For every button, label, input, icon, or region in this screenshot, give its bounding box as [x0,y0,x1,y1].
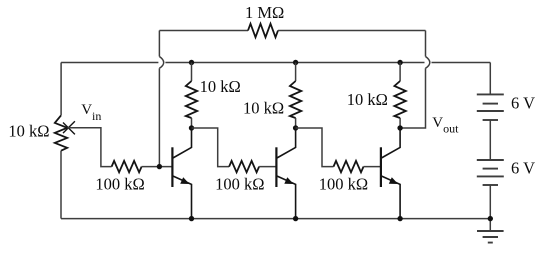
wire: 10 kΩ resistor 2 to collector node [295,118,297,128]
resistor 1 MΩ (feedback) [248,24,278,38]
wire: top feedback wire (right segment) [278,30,426,32]
svg-text:100 kΩ: 100 kΩ [215,175,264,194]
junction: collector node stage 3 [397,125,402,130]
resistor 100 kΩ (base, stage 3) [334,161,364,172]
transistor Q2 base bar [275,147,277,187]
junction: supply rail to collector resistor 1 [189,60,194,65]
transistor Q3 emitter lead [381,176,400,219]
wire: supply rail to 10 kΩ resistor 1 [191,63,193,82]
junction: collector node stage 2 [293,125,298,130]
resistor 10 kΩ (collector load, stage 2) [290,81,301,118]
junction: emitter stage 3 to ground rail [397,216,402,221]
transistor Q2 emitter lead [277,176,296,219]
wire hop: feedback over supply rail (right) [426,57,430,69]
wire: base resistor 3 to Q3 base [364,166,381,168]
svg-text:6 V: 6 V [511,159,535,178]
wire: battery 2 to ground node [489,185,491,231]
potentiometer 10 kΩ (input level control) [55,115,67,150]
svg-text:10 kΩ: 10 kΩ [243,99,284,118]
transistor Q1 emitter arrowhead [180,177,189,184]
wire: wiper lead (pot wiper right then down to base resistor) [67,128,111,167]
resistor 100 kΩ (base, stage 1) [112,161,142,172]
junction: ground rail to battery/ground [488,216,493,221]
transistor Q2 emitter arrowhead [284,177,293,184]
svg-text:10 kΩ: 10 kΩ [200,77,241,96]
wire: left rail bottom (potentiometer to ground rail) [60,151,62,219]
junction: supply rail to collector resistor 3 [397,60,402,65]
wire: collector stage 2 to base resistor stage 3 [296,128,334,167]
wire: right feedback vertical (1 MΩ to Vout node), with hop over supply rail [425,31,427,57]
svg-text:100 kΩ: 100 kΩ [319,175,368,194]
transistor Q2 collector lead [277,128,296,158]
transistor Q3 base bar [380,147,382,187]
junction: emitter stage 1 to ground rail [189,216,194,221]
junction: collector node stage 1 [189,125,194,130]
wire: supply rail to 10 kΩ resistor 3 [399,63,401,82]
wire: supply rail to 10 kΩ resistor 2 [295,63,297,82]
wire: collector stage 1 to base resistor stage 2 [192,128,230,167]
ground symbol [477,231,504,243]
transistor Q1 base bar [171,147,173,187]
resistor 10 kΩ (collector load, stage 3) [394,81,405,118]
wire: 10 kΩ resistor 3 to collector node [399,118,401,128]
svg-text:100 kΩ: 100 kΩ [95,175,144,194]
resistor 100 kΩ (base, stage 2) [229,161,259,172]
svg-text:10 kΩ: 10 kΩ [347,90,388,109]
wire: left rail top (supply rail down to potentiometer) [60,63,62,116]
wire: base resistor 2 to Q2 base [259,166,276,168]
wire: V+ supply rail [61,62,490,64]
potentiometer wiper arrow [63,121,75,134]
transistor Q1 emitter lead [173,176,192,219]
battery 1 (6 V) [477,93,504,95]
svg-text:1 MΩ: 1 MΩ [245,3,284,22]
resistor 10 kΩ (collector load, stage 1) [186,81,197,118]
wire: left feedback vertical (1 MΩ to Q1 base), with hop over supply rail [158,31,160,57]
wire: supply rail to battery 1 [489,63,491,95]
junction: emitter stage 2 to ground rail [293,216,298,221]
wire: top feedback wire (left segment) [159,30,248,32]
svg-text:10 kΩ: 10 kΩ [8,122,49,141]
junction: supply rail to collector resistor 2 [293,60,298,65]
battery 2 (6 V) [477,159,504,161]
transistor Q3 collector lead [381,128,400,158]
wire: 10 kΩ resistor 1 to collector node [191,118,193,128]
wire: base resistor 1 to Q1 base [142,166,173,168]
transistor Q3 emitter arrowhead [389,177,398,184]
wire hop: feedback over supply rail (left) [159,57,163,69]
svg-text:6 V: 6 V [511,94,535,113]
wire: battery 1 to battery 2 [489,120,491,160]
wire: ground rail (bottom) [61,218,490,220]
transistor Q1 collector lead [173,128,192,158]
junction: Q1 base node (feedback + 100 kΩ + base) [157,164,162,169]
